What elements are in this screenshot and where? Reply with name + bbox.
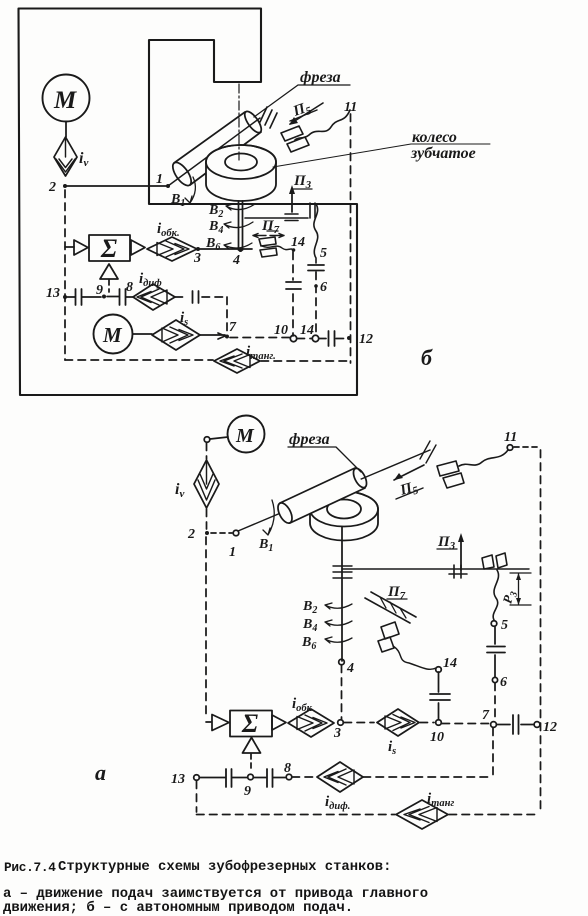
guitar i_tang a <box>396 800 448 829</box>
line end hatches <box>420 441 436 463</box>
FIGURE B (top) <box>19 9 491 396</box>
svg-text:iдиф.: iдиф. <box>325 794 350 812</box>
svg-text:7: 7 <box>482 708 490 723</box>
svg-text:5: 5 <box>320 246 327 261</box>
node 3 <box>338 720 344 726</box>
amp triangle into sum <box>65 246 74 248</box>
worm marks on top rail <box>285 214 298 221</box>
wire 3 to 4 <box>198 248 252 250</box>
dashed to gear pair to corner <box>175 296 227 298</box>
svg-text:7: 7 <box>229 320 237 335</box>
wire is to node 7 <box>200 333 225 339</box>
svg-text:8: 8 <box>284 761 291 776</box>
row 13-9-8 gear pairs <box>63 295 67 299</box>
svg-text:iдиф: iдиф <box>139 271 162 289</box>
svg-text:М: М <box>235 425 255 447</box>
guitar i_tang <box>214 349 260 373</box>
node 4 <box>339 659 345 665</box>
left dashed bus <box>64 190 66 360</box>
svg-text:12: 12 <box>359 332 373 347</box>
worm marks at junction <box>333 566 352 578</box>
node 2 <box>205 531 209 535</box>
wire 2 to 1 <box>65 185 168 187</box>
cutter axis line <box>168 118 260 186</box>
squiggle rail to 5 <box>493 570 498 620</box>
svg-text:1: 1 <box>229 545 236 560</box>
vertical shaft below gear <box>239 201 243 250</box>
vertical shaft below gear <box>341 527 343 661</box>
P3 rail <box>342 568 529 570</box>
svg-text:iобк: iобк <box>292 696 313 714</box>
left dashed bus <box>205 443 208 719</box>
cutter cylinder <box>280 468 365 523</box>
bottom dashed bus with i_tang <box>65 360 351 361</box>
svg-text:2: 2 <box>187 527 195 542</box>
svg-text:Рис.7.4: Рис.7.4 <box>4 860 56 875</box>
svg-text:Σ: Σ <box>241 709 258 738</box>
motor M3 <box>228 416 265 453</box>
long cutter axis line <box>238 450 430 531</box>
triangle below sum <box>100 264 118 279</box>
svg-text:14: 14 <box>300 323 314 338</box>
guitar i_s <box>152 320 200 350</box>
svg-text:В2: В2 <box>208 203 223 220</box>
P5 arrow <box>394 465 424 480</box>
svg-text:3: 3 <box>193 251 201 266</box>
claw flag <box>378 622 399 652</box>
svg-text:10: 10 <box>430 730 444 745</box>
amp triangle out <box>131 240 145 255</box>
svg-text:М: М <box>53 87 77 114</box>
node 2 <box>63 184 67 188</box>
bottom dashed bus a <box>197 814 541 816</box>
squiggle to 14 <box>262 246 293 250</box>
svg-text:а: а <box>95 760 106 785</box>
dashed 14 down with gear pair <box>292 252 294 336</box>
svg-text:1: 1 <box>156 172 163 187</box>
svg-text:6: 6 <box>500 675 507 690</box>
svg-text:зубчатое: зубчатое <box>410 145 476 162</box>
guitar i_v <box>194 460 219 508</box>
guitar i_dif a <box>317 762 363 792</box>
node 3 <box>196 247 200 251</box>
svg-text:iтанг: iтанг <box>427 791 454 809</box>
svg-text:13: 13 <box>46 286 60 301</box>
svg-text:8: 8 <box>126 280 133 295</box>
svg-text:4: 4 <box>346 661 354 676</box>
svg-text:9: 9 <box>96 283 103 298</box>
svg-text:is: is <box>180 310 188 328</box>
svg-text:14: 14 <box>291 235 305 250</box>
gear wheel <box>206 145 276 201</box>
svg-text:Р3: Р3 <box>499 589 520 606</box>
svg-text:4: 4 <box>232 253 240 268</box>
svg-text:фреза: фреза <box>289 431 330 448</box>
guitar i_dif <box>133 284 175 310</box>
caption <box>3 858 428 916</box>
svg-text:Структурные схемы зубофрезерны: Структурные схемы зубофрезерных станков: <box>58 858 391 875</box>
centerline gear axis <box>238 84 240 160</box>
svg-text:iv: iv <box>175 481 184 500</box>
svg-text:is: is <box>388 739 396 757</box>
svg-text:2: 2 <box>48 180 56 195</box>
svg-text:10: 10 <box>274 323 288 338</box>
clutch flags near P5 <box>281 126 309 152</box>
right dashed bus <box>540 450 542 812</box>
P5 arrow <box>290 103 323 124</box>
cutter tip hatches <box>260 107 277 128</box>
svg-text:14: 14 <box>443 656 457 671</box>
7 down to row 13 <box>492 728 494 775</box>
svg-text:iv: iv <box>79 150 88 169</box>
svg-text:В4: В4 <box>208 219 223 236</box>
sum row: corner to amp <box>206 721 211 723</box>
squiggle to 14 <box>393 646 436 669</box>
machine outline <box>19 9 358 396</box>
guitar i_obk <box>147 237 197 261</box>
motor M2 <box>94 315 133 354</box>
triangle below sum a <box>243 738 261 754</box>
motor M1 <box>43 75 90 122</box>
clutch flags <box>437 461 464 488</box>
svg-text:iтанг.: iтанг. <box>246 344 276 362</box>
svg-text:12: 12 <box>543 720 557 735</box>
10 to 7 to 12 <box>442 723 489 725</box>
node 6 <box>315 272 317 337</box>
13 down to bottom bus <box>196 781 198 812</box>
node 4 <box>239 248 243 252</box>
svg-text:В2: В2 <box>302 599 317 616</box>
wire motor to iv <box>65 122 67 137</box>
node 1 <box>166 184 170 188</box>
bottom row 7-10-14-12 <box>230 338 349 339</box>
svg-text:11: 11 <box>344 100 357 115</box>
svg-text:колесо: колесо <box>412 129 457 146</box>
claw flags on rail <box>482 553 507 569</box>
svg-text:Σ: Σ <box>100 234 117 263</box>
svg-text:б: б <box>421 345 433 370</box>
claw clutch pair <box>259 237 277 257</box>
svg-text:3: 3 <box>333 726 341 741</box>
svg-text:В6: В6 <box>301 635 316 652</box>
guitar i_obk a <box>288 709 334 737</box>
svg-text:11: 11 <box>504 430 517 445</box>
14 down to 10 <box>438 672 440 719</box>
svg-text:В1: В1 <box>170 192 185 209</box>
right dashed bus <box>350 114 352 363</box>
cutter cylinder <box>169 109 264 189</box>
dashed 3 to is to 10 <box>344 722 434 724</box>
svg-text:П3: П3 <box>293 173 312 191</box>
gear wheel <box>310 492 378 541</box>
svg-text:В1: В1 <box>258 537 273 554</box>
svg-text:6: 6 <box>320 280 327 295</box>
guitar i_v <box>54 137 77 176</box>
svg-text:фреза: фреза <box>300 69 341 86</box>
summator box <box>89 235 130 261</box>
rail second line <box>245 217 308 219</box>
svg-text:П7: П7 <box>261 218 280 236</box>
svg-text:iобк.: iобк. <box>157 221 180 239</box>
FIGURE A (bottom) <box>95 416 557 830</box>
svg-text:В4: В4 <box>302 617 317 634</box>
svg-text:9: 9 <box>244 784 251 799</box>
guitar i_s a <box>377 709 419 736</box>
svg-text:5: 5 <box>501 618 508 633</box>
svg-text:М: М <box>102 323 123 347</box>
squiggle 5 <box>314 204 318 263</box>
node 10 <box>436 720 442 726</box>
svg-text:движения; б – с автономным при: движения; б – с автономным приводом пода… <box>3 899 353 916</box>
svg-text:13: 13 <box>171 772 185 787</box>
svg-text:В6: В6 <box>205 236 220 253</box>
